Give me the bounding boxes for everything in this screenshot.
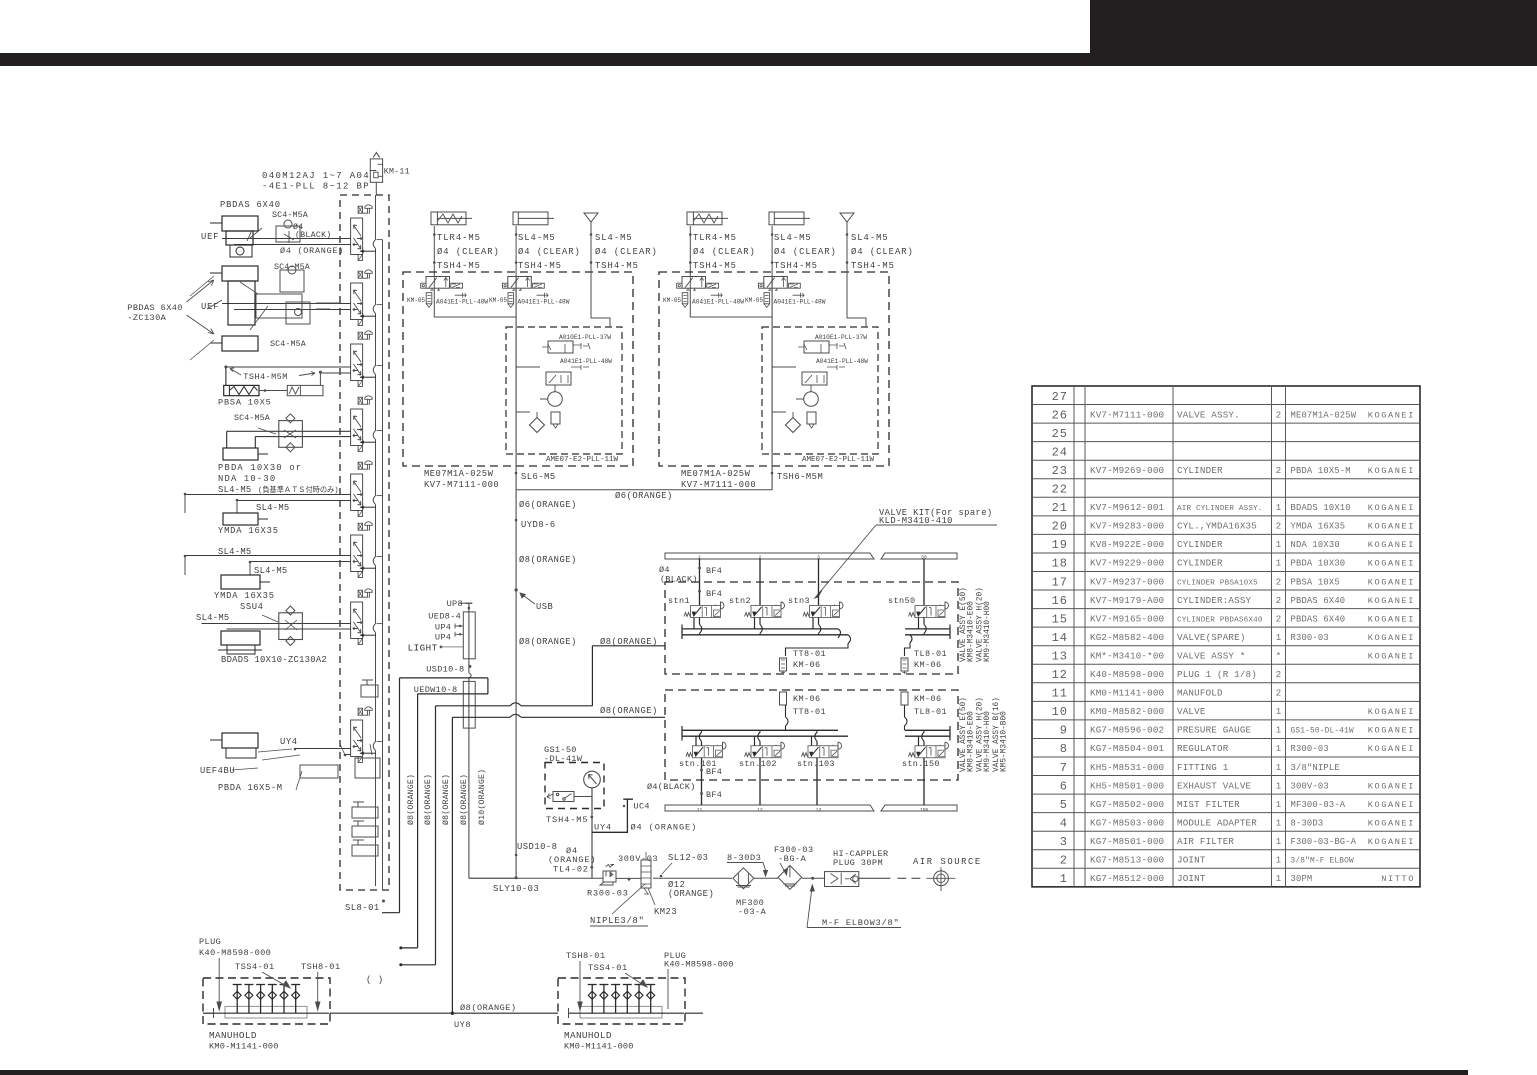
svg-text:TSH4-M5M: TSH4-M5M	[243, 372, 287, 382]
svg-text:KOGANEI: KOGANEI	[1368, 559, 1415, 569]
svg-text:PBDAS 6X40: PBDAS 6X40	[1291, 596, 1346, 606]
svg-text:stn.102: stn.102	[739, 759, 777, 769]
svg-text:KV7-M9229-000: KV7-M9229-000	[1090, 558, 1164, 569]
svg-text:KOGANEI: KOGANEI	[1368, 522, 1415, 532]
svg-text:KOGANEI: KOGANEI	[1368, 614, 1415, 624]
svg-text:3/8"M-F ELBOW: 3/8"M-F ELBOW	[1291, 858, 1355, 866]
svg-text:2: 2	[1276, 670, 1281, 680]
svg-text:TSH4-M5: TSH4-M5	[774, 261, 818, 271]
svg-text:SL4-M5: SL4-M5	[218, 485, 251, 495]
svg-text:UP4: UP4	[435, 622, 451, 632]
svg-text:150: 150	[920, 807, 928, 813]
svg-text:1: 1	[1276, 503, 1281, 513]
svg-text:Ø8(ORANGE): Ø8(ORANGE)	[441, 774, 451, 825]
svg-text:1: 1	[1276, 763, 1281, 773]
svg-text:3: 3	[1060, 835, 1068, 849]
svg-text:stn2: stn2	[729, 596, 751, 606]
svg-text:1: 1	[1276, 837, 1281, 847]
svg-text:MF300-03-A: MF300-03-A	[1291, 800, 1346, 810]
svg-text:UY8: UY8	[454, 1020, 471, 1030]
svg-text:(ORANGE): (ORANGE)	[668, 889, 714, 899]
svg-text:KG2-M8582-400: KG2-M8582-400	[1090, 632, 1164, 643]
svg-text:Ø4(BLACK): Ø4(BLACK)	[647, 782, 696, 792]
svg-text:CYLINDER: CYLINDER	[1177, 558, 1223, 569]
svg-text:CYLINDER: CYLINDER	[1177, 539, 1223, 550]
svg-text:30PM: 30PM	[1291, 874, 1313, 884]
svg-text:9: 9	[1060, 724, 1068, 738]
svg-text:KV7-M9269-000: KV7-M9269-000	[1090, 465, 1164, 476]
svg-text:19: 19	[1052, 538, 1068, 552]
svg-text:AME07-E2-PLL-11W: AME07-E2-PLL-11W	[546, 456, 619, 464]
svg-text:5: 5	[1060, 798, 1068, 812]
svg-text:TT8-01: TT8-01	[793, 707, 826, 717]
svg-text:CYL.,YMDA16X35: CYL.,YMDA16X35	[1177, 521, 1257, 532]
svg-text:A041E1-PLL-48W: A041E1-PLL-48W	[560, 358, 612, 365]
svg-text:KOGANEI: KOGANEI	[1368, 800, 1415, 810]
svg-text:Ø8(ORANGE): Ø8(ORANGE)	[406, 774, 416, 825]
svg-text:A041E1-PLL-48W: A041E1-PLL-48W	[816, 358, 868, 365]
svg-text:BDADS 10X10: BDADS 10X10	[1291, 503, 1351, 513]
svg-text:JOINT: JOINT	[1177, 873, 1206, 884]
svg-text:TSS4-01: TSS4-01	[588, 963, 628, 973]
svg-text:SL4-M5: SL4-M5	[851, 233, 889, 243]
svg-text:KG7-M8513-000: KG7-M8513-000	[1090, 855, 1164, 866]
svg-text:3/8"NIPLE: 3/8"NIPLE	[1291, 763, 1340, 773]
svg-text:KM0-M1141-000: KM0-M1141-000	[564, 1042, 634, 1052]
svg-text:TL4-02: TL4-02	[553, 865, 589, 875]
svg-text:AIR FILTER: AIR FILTER	[1177, 836, 1234, 847]
svg-text:300V-03: 300V-03	[1291, 781, 1329, 791]
svg-text:stn50: stn50	[888, 596, 916, 606]
svg-text:KV7-M9179-A00: KV7-M9179-A00	[1090, 595, 1164, 606]
svg-text:11: 11	[697, 807, 703, 813]
svg-text:UEDW10-8: UEDW10-8	[414, 685, 458, 695]
svg-text:7: 7	[1060, 761, 1068, 775]
svg-text:SC4-M5A: SC4-M5A	[234, 413, 271, 423]
svg-text:UY4: UY4	[594, 822, 612, 832]
svg-text:NDA 10X30: NDA 10X30	[1291, 540, 1340, 550]
svg-text:KV7-M7111-000: KV7-M7111-000	[681, 480, 756, 490]
svg-text:1: 1	[1276, 540, 1281, 550]
svg-text:MODULE ADAPTER: MODULE ADAPTER	[1177, 817, 1257, 828]
svg-text:KV7-M9612-001: KV7-M9612-001	[1090, 502, 1165, 513]
svg-text:8: 8	[1060, 742, 1068, 756]
svg-text:A010E1-PLL-37W: A010E1-PLL-37W	[815, 334, 867, 341]
svg-text:1: 1	[1276, 800, 1281, 810]
svg-text:13: 13	[816, 807, 822, 813]
svg-text:Ø10(ORANGE): Ø10(ORANGE)	[477, 769, 487, 825]
svg-text:Ø4 (CLEAR): Ø4 (CLEAR)	[851, 247, 914, 257]
svg-text:BDADS 10X10-ZC130A2: BDADS 10X10-ZC130A2	[221, 655, 327, 665]
svg-text:1: 1	[1276, 781, 1281, 791]
svg-text:CYLINDER: CYLINDER	[1177, 465, 1223, 476]
svg-text:PBDAS 6X40: PBDAS 6X40	[220, 200, 281, 210]
svg-text:1: 1	[1060, 872, 1068, 886]
svg-text:PBSA 10X5: PBSA 10X5	[218, 398, 272, 408]
svg-text:JOINT: JOINT	[1177, 855, 1206, 866]
svg-text:KH5-M8501-000: KH5-M8501-000	[1090, 780, 1164, 791]
svg-text:2: 2	[1276, 596, 1281, 606]
svg-text:KM8-M3410-E00: KM8-M3410-E00	[968, 601, 976, 662]
svg-text:15: 15	[1052, 612, 1068, 626]
svg-text:VALVE ASSY.: VALVE ASSY.	[1177, 409, 1240, 420]
svg-text:MANUHOLD: MANUHOLD	[564, 1030, 612, 1041]
svg-text:14: 14	[1052, 631, 1068, 645]
svg-text:KM-06: KM-06	[914, 694, 942, 704]
svg-text:040M12AJ 1~7 A04: 040M12AJ 1~7 A04	[262, 171, 370, 181]
svg-text:Ø6(ORANGE): Ø6(ORANGE)	[519, 500, 577, 510]
svg-text:stn.150: stn.150	[902, 759, 940, 769]
svg-text:MANUFOLD: MANUFOLD	[1177, 688, 1223, 699]
svg-text:KM-05: KM-05	[407, 297, 425, 304]
svg-text:VALVE ASSY *: VALVE ASSY *	[1177, 650, 1246, 661]
svg-text:A041E1-PLL-48W: A041E1-PLL-48W	[692, 299, 744, 306]
svg-text:KOGANEI: KOGANEI	[1368, 744, 1415, 754]
svg-text:Ø8(ORANGE): Ø8(ORANGE)	[519, 555, 577, 565]
svg-text:PBSA 10X5: PBSA 10X5	[1291, 577, 1340, 587]
svg-text:KOGANEI: KOGANEI	[1368, 781, 1415, 791]
svg-text:-ZC130A: -ZC130A	[127, 313, 166, 323]
svg-text:ME07M1A-025W: ME07M1A-025W	[424, 469, 494, 479]
svg-text:BF4: BF4	[706, 790, 722, 800]
svg-text:KV7-M7111-000: KV7-M7111-000	[1090, 409, 1164, 420]
svg-text:KV7-M7111-000: KV7-M7111-000	[424, 480, 499, 490]
svg-text:A041E1-PLL-48W: A041E1-PLL-48W	[436, 299, 488, 306]
svg-text:Ø4 (CLEAR): Ø4 (CLEAR)	[518, 247, 581, 257]
svg-text:11: 11	[1052, 687, 1068, 701]
svg-text:KOGANEI: KOGANEI	[1368, 837, 1415, 847]
svg-text:SL12-03: SL12-03	[668, 853, 708, 863]
svg-text:23: 23	[1052, 464, 1068, 478]
svg-text:1: 1	[1276, 726, 1281, 736]
svg-text:UED8-4: UED8-4	[428, 612, 461, 622]
svg-text:YMDA 16X35: YMDA 16X35	[214, 591, 275, 601]
svg-text:2: 2	[1276, 410, 1281, 420]
svg-text:2: 2	[1276, 577, 1281, 587]
svg-text:Ø8(ORANGE): Ø8(ORANGE)	[600, 706, 658, 716]
svg-text:AIR SOURCE: AIR SOURCE	[913, 857, 982, 867]
svg-text:22: 22	[1052, 483, 1068, 497]
svg-text:8-30D3: 8-30D3	[1291, 818, 1324, 828]
svg-text:2: 2	[1276, 614, 1281, 624]
svg-text:BF4: BF4	[706, 767, 722, 777]
svg-text:2: 2	[1276, 466, 1281, 476]
svg-text:UY4: UY4	[280, 737, 298, 747]
svg-text:Ø4 (ORANGE): Ø4 (ORANGE)	[280, 246, 344, 256]
svg-text:SC4-M5A: SC4-M5A	[272, 210, 309, 220]
svg-text:TSH4-M5: TSH4-M5	[437, 261, 481, 271]
svg-text:Ø8(ORANGE): Ø8(ORANGE)	[423, 774, 433, 825]
svg-text:KM9-M3410-H00: KM9-M3410-H00	[984, 711, 992, 772]
svg-text:1: 1	[1276, 633, 1281, 643]
svg-text:-4E1-PLL 8~12 BP: -4E1-PLL 8~12 BP	[262, 182, 370, 192]
svg-text:ME07M1A-025W: ME07M1A-025W	[1291, 410, 1357, 420]
svg-text:KM-05: KM-05	[663, 297, 681, 304]
svg-text:SL8-01: SL8-01	[345, 903, 380, 913]
svg-text:TSH6-M5M: TSH6-M5M	[777, 472, 823, 482]
svg-text:KG7-M8503-000: KG7-M8503-000	[1090, 817, 1164, 828]
svg-text:TL8-01: TL8-01	[914, 649, 947, 659]
svg-text:GS1-50-DL-41W: GS1-50-DL-41W	[1291, 728, 1355, 736]
svg-text:NDA 10-30: NDA 10-30	[218, 474, 276, 484]
svg-text:PBDA 16X5-M: PBDA 16X5-M	[218, 783, 283, 793]
svg-text:K40-M8598-000: K40-M8598-000	[664, 960, 734, 970]
svg-text:18: 18	[1052, 557, 1068, 571]
svg-text:TSH4-M5: TSH4-M5	[595, 261, 639, 271]
svg-text:TL8-01: TL8-01	[914, 707, 947, 717]
svg-text:TSH4-M5: TSH4-M5	[546, 815, 588, 825]
svg-text:Ø4 (CLEAR): Ø4 (CLEAR)	[774, 247, 837, 257]
svg-text:KOGANEI: KOGANEI	[1368, 410, 1415, 420]
svg-text:K40-M8598-000: K40-M8598-000	[1090, 669, 1164, 680]
svg-text:SL4-M5: SL4-M5	[774, 233, 812, 243]
svg-text:(ORANGE): (ORANGE)	[548, 855, 596, 865]
svg-text:KM-05: KM-05	[745, 297, 763, 304]
svg-text:SL4-M5: SL4-M5	[595, 233, 633, 243]
svg-text:PBDAS 6X40: PBDAS 6X40	[127, 303, 183, 313]
svg-text:KV8-M922E-000: KV8-M922E-000	[1090, 539, 1164, 550]
svg-text:VALVE: VALVE	[1177, 706, 1206, 717]
svg-text:1: 1	[1276, 874, 1281, 884]
svg-text:KOGANEI: KOGANEI	[1368, 466, 1415, 476]
svg-text:CYLINDER PBDAS6X40: CYLINDER PBDAS6X40	[1177, 616, 1263, 624]
svg-text:20: 20	[1052, 520, 1068, 534]
svg-text:CYLINDER:ASSY: CYLINDER:ASSY	[1177, 595, 1252, 606]
svg-text:TSH4-M5: TSH4-M5	[693, 261, 737, 271]
svg-text:*: *	[1276, 651, 1281, 661]
svg-text:VALVE(SPARE): VALVE(SPARE)	[1177, 632, 1246, 643]
svg-text:NITTO: NITTO	[1381, 874, 1415, 884]
svg-text:Ø4 (CLEAR): Ø4 (CLEAR)	[595, 247, 658, 257]
svg-text:( ): ( )	[366, 975, 384, 985]
svg-text:KG7-M8596-002: KG7-M8596-002	[1090, 725, 1164, 736]
svg-text:1: 1	[1276, 559, 1281, 569]
svg-text:Ø8(ORANGE): Ø8(ORANGE)	[459, 774, 469, 825]
svg-text:KM-06: KM-06	[914, 660, 942, 670]
svg-text:PBDA 10X5-M: PBDA 10X5-M	[1291, 466, 1351, 476]
svg-text:A010E1-PLL-37W: A010E1-PLL-37W	[559, 334, 611, 341]
svg-text:PBDAS 6X40: PBDAS 6X40	[1291, 614, 1346, 624]
svg-text:CYLINDER PBSA10X5: CYLINDER PBSA10X5	[1177, 579, 1258, 587]
svg-text:26: 26	[1052, 408, 1068, 422]
svg-text:KM5-M3410-B00: KM5-M3410-B00	[1001, 711, 1009, 772]
svg-text:KM-06: KM-06	[793, 660, 821, 670]
svg-text:PBDA 10X30 or: PBDA 10X30 or	[218, 463, 302, 473]
svg-text:LIGHT: LIGHT	[408, 643, 438, 654]
svg-text:KOGANEI: KOGANEI	[1368, 651, 1415, 661]
svg-text:Ø8(ORANGE): Ø8(ORANGE)	[519, 637, 577, 647]
svg-text:TT8-01: TT8-01	[793, 649, 826, 659]
svg-text:USD10-8: USD10-8	[426, 665, 464, 675]
svg-text:SC4-M5A: SC4-M5A	[270, 339, 307, 349]
svg-text:TLR4-M5: TLR4-M5	[693, 233, 737, 243]
svg-text:KOGANEI: KOGANEI	[1368, 633, 1415, 643]
svg-text:6: 6	[1060, 779, 1068, 793]
svg-text:KM0-M8582-000: KM0-M8582-000	[1090, 706, 1164, 717]
svg-text:UYD8-6: UYD8-6	[521, 520, 556, 530]
svg-text:Ø4 (CLEAR): Ø4 (CLEAR)	[437, 247, 500, 257]
svg-text:Ø4: Ø4	[659, 565, 670, 575]
svg-text:KG7-M8512-000: KG7-M8512-000	[1090, 873, 1164, 884]
svg-text:stn.103: stn.103	[797, 759, 835, 769]
svg-text:KV7-M9283-000: KV7-M9283-000	[1090, 521, 1164, 532]
svg-text:KV7-M9237-000: KV7-M9237-000	[1090, 576, 1164, 587]
svg-text:-BG-A: -BG-A	[778, 854, 807, 864]
svg-text:KM0-M1141-000: KM0-M1141-000	[1090, 688, 1164, 699]
svg-text:TSH4-M5: TSH4-M5	[518, 261, 562, 271]
svg-text:300V-03: 300V-03	[618, 854, 658, 864]
svg-text:UC4: UC4	[634, 802, 650, 812]
svg-text:PLUG 1 (R 1/8): PLUG 1 (R 1/8)	[1177, 669, 1257, 680]
svg-text:stn3: stn3	[788, 596, 810, 606]
svg-text:21: 21	[1052, 501, 1068, 515]
svg-text:PLUG 30PM: PLUG 30PM	[833, 858, 883, 868]
svg-text:TSH8-01: TSH8-01	[301, 962, 341, 972]
svg-text:12: 12	[757, 807, 763, 813]
svg-text:Ø4 (CLEAR): Ø4 (CLEAR)	[693, 247, 756, 257]
svg-text:KM23: KM23	[654, 907, 677, 917]
svg-text:KOGANEI: KOGANEI	[1368, 540, 1415, 550]
svg-text:SL4-M5: SL4-M5	[256, 503, 289, 513]
svg-text:KG7-M8504-001: KG7-M8504-001	[1090, 743, 1165, 754]
svg-text:12: 12	[1052, 668, 1068, 682]
svg-text:1: 1	[1276, 744, 1281, 754]
svg-text:MANUHOLD: MANUHOLD	[209, 1030, 257, 1041]
svg-text:TSS4-01: TSS4-01	[235, 962, 275, 972]
svg-text:SL4-M5: SL4-M5	[518, 233, 556, 243]
svg-text:AME07-E2-PLL-11W: AME07-E2-PLL-11W	[802, 456, 875, 464]
svg-text:KOGANEI: KOGANEI	[1368, 707, 1415, 717]
svg-text:KM*-M3410-*00: KM*-M3410-*00	[1090, 650, 1164, 661]
svg-text:UEF: UEF	[201, 232, 219, 242]
svg-text:KOGANEI: KOGANEI	[1368, 818, 1415, 828]
svg-text:KLD-M3410-410: KLD-M3410-410	[879, 516, 953, 526]
svg-text:F300-03-BG-A: F300-03-BG-A	[1291, 837, 1357, 847]
svg-text:KM-05: KM-05	[489, 297, 507, 304]
svg-text:SL4-M5: SL4-M5	[196, 613, 229, 623]
svg-text:stn1: stn1	[668, 596, 690, 606]
svg-text:UEF4BU: UEF4BU	[200, 766, 235, 776]
svg-text:KM0-M1141-000: KM0-M1141-000	[209, 1042, 279, 1052]
svg-text:YMDA 16X35: YMDA 16X35	[218, 526, 279, 536]
svg-text:M-F ELBOW3/8": M-F ELBOW3/8"	[822, 918, 899, 928]
svg-text:(BLACK): (BLACK)	[660, 575, 698, 585]
svg-text:TLR4-M5: TLR4-M5	[437, 233, 481, 243]
svg-text:(BLACK): (BLACK)	[295, 230, 332, 240]
svg-text:PBDA 10X30: PBDA 10X30	[1291, 559, 1346, 569]
svg-text:REGULATOR: REGULATOR	[1177, 743, 1229, 754]
svg-text:1: 1	[1276, 856, 1281, 866]
svg-text:KG7-M8501-000: KG7-M8501-000	[1090, 836, 1164, 847]
svg-text:BF4: BF4	[706, 589, 722, 599]
svg-text:4: 4	[1060, 816, 1068, 830]
svg-text:Ø6(ORANGE): Ø6(ORANGE)	[615, 491, 673, 501]
svg-text:PLUG: PLUG	[199, 937, 221, 947]
svg-text:KOGANEI: KOGANEI	[1368, 726, 1415, 736]
svg-text:Ø4 (ORANGE): Ø4 (ORANGE)	[631, 822, 698, 832]
svg-text:SLY10-03: SLY10-03	[493, 884, 539, 894]
svg-text:(負基準ＡＴＳ付時のみ): (負基準ＡＴＳ付時のみ)	[258, 485, 339, 495]
svg-text:KM8-M3410-E00: KM8-M3410-E00	[968, 711, 976, 772]
svg-text:16: 16	[1052, 594, 1068, 608]
svg-text:Ø8(ORANGE): Ø8(ORANGE)	[460, 1003, 517, 1013]
svg-text:1: 1	[1276, 707, 1281, 717]
svg-text:KG7-M8502-000: KG7-M8502-000	[1090, 799, 1164, 810]
svg-text:NIPLE3/8": NIPLE3/8"	[590, 916, 645, 926]
svg-text:SL6-M5: SL6-M5	[521, 472, 556, 482]
svg-text:R300-03: R300-03	[587, 889, 629, 899]
svg-text:1: 1	[1276, 818, 1281, 828]
svg-text:USB: USB	[536, 602, 553, 612]
svg-text:10: 10	[1052, 705, 1068, 719]
svg-text:2: 2	[1060, 854, 1068, 868]
svg-text:K40-M8598-000: K40-M8598-000	[199, 948, 271, 958]
svg-text:KM9-M3410-H00: KM9-M3410-H00	[984, 601, 992, 662]
svg-text:EXHAUST VALVE: EXHAUST VALVE	[1177, 780, 1252, 791]
svg-text:27: 27	[1052, 390, 1068, 404]
svg-text:UP8: UP8	[447, 599, 463, 609]
svg-text:SL4-M5: SL4-M5	[218, 547, 251, 557]
svg-text:AIR CYLINDER ASSY.: AIR CYLINDER ASSY.	[1177, 505, 1263, 513]
svg-text:MIST FILTER: MIST FILTER	[1177, 799, 1240, 810]
svg-text:PRESURE GAUGE: PRESURE GAUGE	[1177, 725, 1252, 736]
svg-text:-03-A: -03-A	[738, 907, 767, 917]
svg-text:2: 2	[1276, 522, 1281, 532]
svg-text:ME07M1A-025W: ME07M1A-025W	[681, 469, 751, 479]
svg-text:KOGANEI: KOGANEI	[1368, 503, 1415, 513]
svg-text:TSH4-M5: TSH4-M5	[851, 261, 895, 271]
svg-text:13: 13	[1052, 649, 1068, 663]
svg-text:UP4: UP4	[435, 633, 451, 643]
svg-text:FITTING 1: FITTING 1	[1177, 762, 1229, 773]
svg-text:SSU4: SSU4	[240, 602, 264, 612]
svg-text:KM-11: KM-11	[384, 168, 410, 177]
svg-text:2: 2	[1276, 689, 1281, 699]
svg-text:17: 17	[1052, 575, 1068, 589]
svg-text:A041E1-PLL-48W: A041E1-PLL-48W	[518, 299, 570, 306]
svg-text:R300-03: R300-03	[1291, 744, 1329, 754]
svg-text:A041E1-PLL-48W: A041E1-PLL-48W	[774, 299, 826, 306]
svg-text:8-30D3: 8-30D3	[727, 853, 762, 863]
svg-text:KOGANEI: KOGANEI	[1368, 596, 1415, 606]
svg-text:R300-03: R300-03	[1291, 633, 1329, 643]
svg-text:24: 24	[1052, 445, 1068, 459]
svg-text:TSH8-01: TSH8-01	[566, 951, 606, 961]
svg-text:USD10-8: USD10-8	[517, 842, 557, 852]
svg-text:BF4: BF4	[706, 566, 722, 576]
svg-text:KV7-M9165-000: KV7-M9165-000	[1090, 613, 1164, 624]
svg-text:25: 25	[1052, 427, 1068, 441]
svg-text:KOGANEI: KOGANEI	[1368, 577, 1415, 587]
svg-text:KH5-M8531-000: KH5-M8531-000	[1090, 762, 1164, 773]
svg-text:YMDA 16X35: YMDA 16X35	[1291, 522, 1346, 532]
svg-text:KM-06: KM-06	[793, 694, 821, 704]
